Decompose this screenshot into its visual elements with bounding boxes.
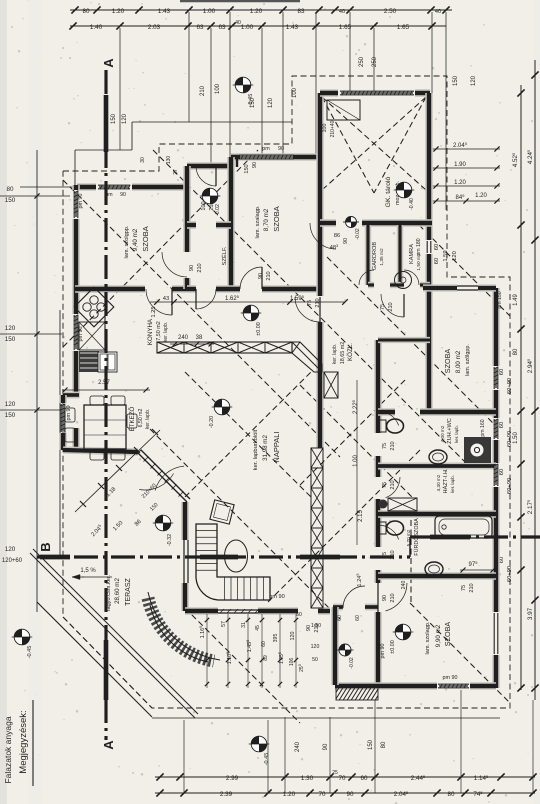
svg-text:63: 63 [196,24,204,31]
svg-text:SZOBA: SZOBA [272,206,281,231]
svg-text:ker. lapb.: ker. lapb. [145,409,151,429]
svg-text:1.30: 1.30 [301,775,314,782]
svg-text:150: 150 [5,412,16,419]
svg-text:-0.40: -0.40 [409,198,415,210]
svg-text:KÖZL.: KÖZL. [347,343,354,361]
svg-text:60: 60 [499,369,505,375]
svg-text:210: 210 [390,441,396,450]
svg-text:pm 90: pm 90 [443,675,458,681]
svg-text:90: 90 [189,265,195,271]
svg-text:75: 75 [307,300,313,306]
svg-text:150: 150 [244,164,250,173]
svg-text:40: 40 [435,9,441,15]
svg-text:2.39: 2.39 [220,791,233,798]
svg-text:ker. lapb.: ker. lapb. [450,475,455,493]
svg-text:106: 106 [289,658,295,667]
svg-text:lam. szolgpp.: lam. szolgpp. [124,225,130,258]
svg-text:25: 25 [332,770,338,776]
svg-text:-0.45: -0.45 [264,753,270,766]
svg-text:7,50 m2: 7,50 m2 [156,321,162,340]
svg-text:80: 80 [447,791,455,798]
svg-text:1,5 %: 1,5 % [80,568,96,574]
svg-text:A: A [101,740,116,750]
svg-text:2.03: 2.03 [148,24,161,31]
svg-text:KAMRA: KAMRA [409,244,415,264]
svg-text:1.50: 1.50 [311,623,321,629]
svg-text:3.97: 3.97 [527,607,534,620]
svg-text:-0.02: -0.02 [355,228,361,240]
svg-text:1.00: 1.00 [241,24,254,31]
svg-text:pm 180: pm 180 [416,238,422,255]
svg-text:89: 89 [263,655,269,661]
svg-text:2.99: 2.99 [226,775,239,782]
svg-text:2.50: 2.50 [384,8,397,15]
svg-text:6,50 m2: 6,50 m2 [138,409,144,428]
svg-text:GARDROB: GARDROB [372,242,378,271]
svg-text:pm 160: pm 160 [480,419,486,436]
svg-text:240: 240 [401,581,407,590]
svg-text:80: 80 [381,741,387,748]
svg-text:ker. lapb.: ker. lapb. [454,425,459,443]
svg-text:75: 75 [380,304,386,310]
svg-text:-0.20: -0.20 [209,416,215,428]
svg-text:A: A [101,58,116,68]
svg-text:-0.02: -0.02 [215,204,221,216]
svg-text:150: 150 [111,113,117,124]
svg-text:50: 50 [296,612,302,618]
svg-text:2.57: 2.57 [98,380,110,386]
svg-text:TERASZ: TERASZ [125,577,132,605]
svg-text:120: 120 [5,325,16,332]
svg-text:86: 86 [334,233,340,239]
svg-text:130: 130 [166,156,172,165]
svg-text:60: 60 [499,557,505,563]
svg-text:75: 75 [382,482,388,488]
svg-text:8,00 m2: 8,00 m2 [455,350,462,373]
svg-text:90: 90 [382,595,388,601]
svg-text:31,98 m2: 31,98 m2 [262,435,269,461]
svg-text:1.20: 1.20 [475,193,487,199]
svg-text:1.40: 1.40 [90,24,103,31]
svg-text:1.20: 1.20 [112,8,125,15]
svg-text:210: 210 [469,583,475,592]
svg-text:100: 100 [322,124,328,133]
svg-text:210: 210 [388,302,394,311]
svg-text:100: 100 [215,83,221,94]
svg-text:210: 210 [197,263,203,272]
svg-text:250: 250 [372,56,378,67]
svg-text:pm 90: pm 90 [269,594,285,600]
svg-text:ker. lapb.: ker. lapb. [163,322,169,342]
svg-text:60: 60 [261,641,267,647]
svg-text:1,35 m2: 1,35 m2 [379,248,385,266]
svg-text:pm 90: pm 90 [380,644,386,659]
svg-text:57: 57 [221,621,227,627]
svg-text:KONYHA: KONYHA [147,318,154,345]
svg-text:83: 83 [297,8,305,15]
svg-text:-0.32: -0.32 [167,534,173,546]
svg-text:210: 210 [200,85,206,96]
svg-text:SZOBA: SZOBA [443,349,452,374]
svg-text:43: 43 [163,296,169,302]
svg-text:ÉTKEZŐ: ÉTKEZŐ [129,406,136,431]
svg-text:1.25: 1.25 [151,306,157,317]
svg-text:lam. szalagp.: lam. szalagp. [255,205,261,238]
svg-text:90: 90 [258,273,264,279]
svg-text:50: 50 [312,657,318,663]
svg-text:120+60: 120+60 [2,558,23,564]
svg-text:lam. szőlgpp.: lam. szőlgpp. [465,344,471,376]
svg-text:120: 120 [471,75,477,86]
svg-text:120: 120 [311,644,320,650]
svg-text:240: 240 [178,335,189,341]
svg-text:4,00 m2: 4,00 m2 [440,425,445,442]
svg-text:1.49: 1.49 [513,294,519,306]
svg-text:60: 60 [499,422,505,428]
svg-text:8,70 m2: 8,70 m2 [263,208,270,231]
svg-text:30: 30 [140,157,146,163]
svg-text:210: 210 [390,593,396,602]
svg-text:240: 240 [295,741,301,752]
svg-text:9,40 m2: 9,40 m2 [132,228,139,251]
svg-text:pm 90: pm 90 [78,194,84,209]
svg-text:2,10 m2: 2,10 m2 [229,248,235,266]
svg-text:90: 90 [252,162,258,168]
svg-text:4,30 m2: 4,30 m2 [436,474,441,491]
svg-text:1.50: 1.50 [513,432,519,444]
svg-text:120: 120 [5,546,16,553]
svg-text:60: 60 [434,244,440,250]
svg-text:1.65: 1.65 [397,24,410,31]
svg-text:210: 210 [315,298,321,307]
svg-text:Megjegyzések:: Megjegyzések: [18,710,29,773]
svg-text:27: 27 [173,169,179,175]
svg-text:SZÉLF.: SZÉLF. [221,246,228,265]
svg-text:SZOBA: SZOBA [443,622,452,647]
svg-text:2.15: 2.15 [358,510,364,522]
svg-text:90: 90 [278,146,284,152]
svg-text:210: 210 [390,480,396,489]
svg-text:1.43: 1.43 [286,24,299,31]
svg-text:1.00: 1.00 [203,8,216,15]
svg-text:1.43: 1.43 [158,8,171,15]
svg-text:60: 60 [499,469,505,475]
svg-text:±0.00: ±0.00 [390,640,396,653]
svg-text:75: 75 [382,443,388,449]
svg-text:150: 150 [5,197,16,204]
svg-text:ZUH.+WC: ZUH.+WC [447,418,453,444]
svg-text:9,90 m2: 9,90 m2 [435,624,442,647]
svg-text:±0.00: ±0.00 [256,322,262,335]
svg-text:lam. szolagp.: lam. szolagp. [425,621,431,654]
svg-text:pm: pm [262,146,270,152]
svg-text:1.20: 1.20 [454,180,466,186]
svg-text:18,65 m2: 18,65 m2 [340,342,346,364]
svg-text:1.20: 1.20 [250,8,263,15]
svg-text:-0.02: -0.02 [349,657,355,669]
svg-text:31: 31 [241,622,247,628]
svg-text:1.90: 1.90 [454,162,466,168]
svg-text:150: 150 [453,75,459,86]
svg-text:80: 80 [6,186,14,193]
svg-text:40: 40 [339,9,345,15]
svg-text:80: 80 [82,8,90,15]
svg-text:ker. lapburkolólt: ker. lapburkolólt [253,429,259,470]
svg-text:70: 70 [338,775,346,782]
svg-text:210+40: 210+40 [330,120,336,137]
svg-text:HÁZT-I.H.: HÁZT-I.H. [442,468,449,493]
svg-text:38: 38 [196,335,203,341]
svg-text:60: 60 [360,775,368,782]
svg-text:60: 60 [434,258,440,264]
svg-text:60: 60 [337,615,343,621]
svg-text:250: 250 [359,56,365,67]
svg-text:ker. lapb.: ker. lapb. [332,344,338,364]
svg-text:90: 90 [323,743,329,750]
svg-text:100: 100 [292,87,298,98]
svg-text:90: 90 [346,791,354,798]
svg-text:1,50 m2: 1,50 m2 [416,253,422,271]
svg-text:120: 120 [290,632,296,641]
svg-text:pm 150: pm 150 [497,291,503,308]
svg-text:120: 120 [5,401,16,408]
svg-text:150: 150 [368,739,374,750]
svg-text:395: 395 [273,634,279,643]
svg-text:NAPPALI: NAPPALI [272,431,281,462]
svg-text:80: 80 [513,348,519,355]
svg-text:SZOBA: SZOBA [141,226,150,251]
svg-text:-0.45: -0.45 [248,94,254,107]
svg-text:-0.45: -0.45 [27,646,33,659]
svg-text:90: 90 [120,192,126,198]
svg-text:Falazatok anyaga: Falazatok anyaga [3,716,13,783]
svg-text:210: 210 [266,271,272,280]
svg-text:120: 120 [122,113,128,124]
svg-text:90: 90 [343,238,349,244]
svg-text:1.00: 1.00 [353,455,359,467]
svg-text:120: 120 [268,97,274,108]
svg-text:150: 150 [5,336,16,343]
svg-text:B: B [38,542,53,551]
svg-text:63: 63 [218,24,226,31]
svg-text:60: 60 [355,615,361,621]
svg-text:GK. tároló: GK. tároló [385,176,392,207]
svg-text:28,60 m2: 28,60 m2 [114,578,121,604]
svg-text:75: 75 [461,585,467,591]
svg-text:45: 45 [255,625,261,631]
svg-text:70: 70 [318,791,326,798]
